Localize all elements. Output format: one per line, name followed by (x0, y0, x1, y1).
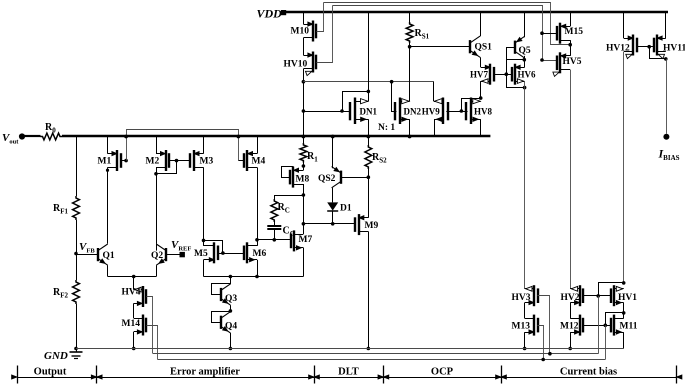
wire QS2 collector to D1 (332, 188, 334, 203)
node rail-R1 (302, 135, 306, 139)
wire RF1 to VFB node (76, 220, 78, 254)
HV9 label (422, 106, 441, 116)
transistor M7 (291, 230, 303, 251)
VDD terminal (281, 10, 286, 15)
transistor M10 (303, 21, 316, 42)
svg-text:HV8: HV8 (474, 106, 493, 116)
wire Q3 diode loop (212, 284, 231, 295)
wire R1 to M8 (302, 163, 306, 171)
wire M5-M6 gates (218, 251, 244, 255)
transistor M4 (244, 150, 257, 171)
Q2 label (151, 251, 163, 261)
VREF label (171, 239, 191, 253)
transistor M13 (525, 315, 538, 336)
transistor M14 (134, 315, 146, 336)
Q3 label (225, 294, 237, 304)
section label DLT (338, 367, 359, 378)
wire rail to R1 (303, 137, 305, 144)
wire HV10 gate route (317, 6, 333, 63)
wire HV1 gate route down (598, 296, 600, 354)
wire rail to RS2 (368, 137, 370, 146)
transistor DN1 (350, 98, 368, 125)
wire Vout to R0 (25, 135, 41, 137)
ground (70, 352, 83, 359)
wire HV9 source (434, 119, 436, 136)
Vout label (2, 132, 19, 146)
wire rail to RF1 (76, 137, 78, 197)
wire RS1 bottom (408, 43, 412, 49)
wire CC to gate node (274, 229, 276, 240)
wire DN2 source (408, 119, 412, 138)
wire M13 source (523, 332, 527, 350)
transistor Q1 (98, 244, 108, 265)
svg-text:HV5: HV5 (563, 57, 582, 67)
M14 label (122, 319, 141, 329)
node M7 drain top (302, 222, 306, 226)
wire M9 source (367, 232, 371, 351)
Q1 label (103, 251, 115, 261)
svg-text:Error amplifier: Error amplifier (170, 367, 240, 378)
wire bus A (303, 81, 434, 83)
wire M1 drain to Q1 (106, 167, 109, 243)
wire M9 drain (368, 177, 370, 218)
wire HV1-M11 (623, 303, 625, 318)
M4 label (252, 157, 266, 167)
wire M5 source (203, 260, 205, 277)
wire Q2 base to VREF (166, 254, 180, 256)
wire RC to CC (274, 222, 276, 226)
transistor HV9 (434, 98, 448, 125)
node DN1 drain (367, 90, 371, 94)
Q5 label (519, 46, 531, 56)
M9 label (365, 221, 379, 231)
wire HV2-HV1 gates (583, 294, 611, 298)
svg-text:M6: M6 (253, 249, 267, 259)
wire RF2 to ground (76, 304, 78, 353)
wire HV8 source (480, 119, 482, 136)
wire VDD to RS1 (409, 13, 411, 23)
wire M5 diode tie (204, 241, 223, 254)
wire M12 source (568, 332, 572, 350)
wire M11 diode tie (606, 313, 624, 326)
node HV1 drain tie (622, 281, 626, 285)
transistor M5 (204, 242, 219, 263)
svg-text:HV1: HV1 (618, 293, 637, 303)
wire HV6 column down (524, 81, 526, 289)
wire M10-HV10 (303, 38, 305, 55)
wire M6 source (257, 260, 259, 277)
wire M3 source column (203, 137, 205, 154)
VREF terminal (180, 252, 185, 257)
svg-text:DN1: DN1 (360, 106, 378, 116)
node HV8 drain (479, 96, 483, 100)
svg-text:M1: M1 (98, 157, 112, 167)
svg-text:M5: M5 (194, 249, 208, 259)
wire M1 gate to bus node (121, 159, 128, 163)
node GND junction (74, 347, 78, 351)
wire M11 source (623, 332, 625, 348)
RC label (278, 202, 290, 215)
node HV11 source tie (664, 57, 668, 61)
wire M2 drain to Q2 (156, 167, 158, 243)
svg-text:HV10: HV10 (284, 60, 308, 70)
transistor DN2 (395, 98, 410, 125)
wire VFB to Q1 base (76, 254, 98, 256)
transistor M2 (156, 150, 169, 171)
transistor Q4 (221, 312, 231, 333)
wire M13 gate route (538, 326, 544, 360)
M5 label (194, 249, 208, 259)
resistor RF1 (73, 196, 80, 220)
wire HV12 source (623, 13, 625, 39)
svg-text:HV12: HV12 (606, 44, 630, 54)
node bus-rail left (124, 135, 128, 139)
DN1 label (360, 106, 378, 116)
transistor QS1 (470, 36, 480, 57)
wire M10 source (303, 13, 305, 25)
resistor RC (271, 199, 278, 222)
RS1 label (415, 28, 430, 41)
svg-text:Current bias: Current bias (560, 367, 617, 378)
transistor M15 (557, 23, 570, 44)
node VFB (74, 252, 78, 256)
HV12 label (606, 44, 630, 54)
R0 label (45, 122, 56, 135)
wire Q1 emitter (107, 265, 109, 276)
transistor M12 (570, 315, 583, 336)
wire bias route 1 (153, 352, 598, 356)
HV3 label (512, 293, 531, 303)
M12 label (560, 322, 579, 332)
wire M2 source column (156, 137, 158, 154)
N:1 label (378, 123, 395, 133)
wire Q5 collector tie (506, 56, 526, 62)
svg-text:VDD: VDD (257, 7, 283, 21)
node D1 cathode (331, 222, 335, 226)
wire M11 gate route (605, 325, 607, 359)
wire HV9-HV8 gates (446, 109, 467, 113)
svg-text:DLT: DLT (338, 367, 359, 378)
Q4 label (225, 322, 237, 332)
wire M8 drain (303, 184, 305, 224)
resistor R1 (300, 143, 307, 163)
wire tail to HV4 (133, 277, 135, 290)
wire M7 source (303, 248, 305, 277)
svg-text:M8: M8 (296, 175, 310, 185)
svg-text:HV7: HV7 (470, 70, 489, 80)
wire Q2 collector (156, 244, 158, 251)
wire M15 source (570, 13, 572, 27)
QS2 label (318, 174, 336, 184)
wire DN1 source (368, 119, 370, 136)
node M11 drain tie (622, 311, 626, 315)
svg-text:Q3: Q3 (225, 294, 237, 304)
svg-text:M2: M2 (146, 157, 160, 167)
D1 label (340, 204, 352, 214)
wire Q3 collector (230, 277, 232, 285)
HV6 label (518, 70, 537, 80)
section label Current bias (560, 367, 617, 378)
node QS2 emitter rail (331, 135, 335, 139)
svg-text:M13: M13 (512, 322, 531, 332)
wire Q5 base route (507, 48, 525, 88)
M13 label (512, 322, 531, 332)
wire HV8 diode tie (462, 99, 481, 112)
svg-text:Q2: Q2 (151, 251, 163, 261)
transistor HV1 (611, 285, 624, 306)
wire HV11 diode tie (650, 47, 666, 59)
node DN2 gate bus (390, 80, 394, 84)
wire Q5 collector to HV6 (524, 60, 526, 68)
svg-text:M7: M7 (299, 235, 313, 245)
resistor RS2 (365, 145, 372, 169)
RF2 label (53, 287, 69, 300)
M11 label (620, 322, 638, 332)
wire Q4 emitter (229, 333, 233, 350)
wire M8 gate loop (282, 167, 294, 178)
node bus-rail right (237, 135, 241, 139)
svg-text:QS1: QS1 (475, 43, 493, 53)
svg-text:HV2: HV2 (561, 293, 580, 303)
svg-text:Output: Output (34, 367, 67, 378)
wire HV3 gate route (538, 296, 550, 354)
transistor HV8 (466, 98, 481, 125)
M8 label (296, 175, 310, 185)
wire Q3 emitter (229, 305, 233, 313)
node CC bottom (273, 238, 277, 242)
node rail-RS2 (366, 135, 370, 139)
svg-text:M11: M11 (620, 322, 638, 332)
section label Output (34, 367, 67, 378)
svg-text:D1: D1 (340, 204, 352, 214)
section label Error amplifier (170, 367, 240, 378)
HV1 label (618, 293, 637, 303)
wire bus B (303, 111, 350, 113)
wire DLT node (303, 223, 355, 225)
wire M4 drain to M6 (257, 167, 259, 246)
transistor HV11 (654, 35, 666, 59)
transistor M11 (611, 315, 624, 336)
VFB label (79, 241, 95, 255)
M10 label (291, 27, 310, 37)
svg-text:HV6: HV6 (518, 70, 537, 80)
transistor M1 (108, 150, 122, 171)
wire M15 gate (540, 31, 557, 35)
wire M10 gate route (317, 3, 324, 32)
wire HV7 drain (480, 81, 482, 98)
wire HV4-M14 (133, 303, 135, 318)
HV4 label (122, 288, 141, 298)
wire D1 to node (332, 211, 334, 224)
section label OCP (431, 367, 454, 378)
transistor HV6 (512, 64, 525, 85)
wire bias route 2 (158, 358, 606, 362)
wire RS2 to node (368, 169, 370, 177)
wire QS2 base (341, 175, 370, 179)
svg-text:M15: M15 (565, 27, 584, 37)
transistor Q5 (515, 37, 525, 58)
M2 label (146, 157, 160, 167)
capacitor CC (267, 226, 281, 229)
node M5 drain (202, 239, 206, 243)
node M8 drain (302, 193, 306, 197)
svg-text:HV11: HV11 (663, 44, 685, 54)
VDD label (257, 7, 283, 21)
svg-text:GND: GND (44, 350, 68, 362)
wire HV1 diode tie (599, 283, 624, 296)
wire Q2 emitter (156, 265, 158, 276)
node M2 drain (154, 172, 158, 176)
wire tail M5-M7 (204, 275, 304, 279)
DN2 label (404, 106, 422, 116)
wire HV11 top (665, 13, 667, 39)
wire Q4 diode loop (212, 312, 231, 323)
wire DN1 diode loop (343, 92, 369, 112)
wire HV10 drain column (303, 69, 305, 137)
M7 label (299, 235, 313, 245)
transistor HV4 (134, 286, 146, 307)
resistor RF2 (73, 280, 80, 304)
IBIAS label (658, 147, 680, 163)
wire GND net (76, 348, 624, 350)
svg-text:HV4: HV4 (122, 288, 141, 298)
wire M3 drain to M5 (203, 167, 205, 246)
transistor HV2 (570, 285, 583, 306)
wire HV7 gate (494, 72, 508, 76)
transistor HV3 (525, 285, 538, 306)
wire RC top (275, 196, 304, 200)
svg-text:M12: M12 (560, 322, 579, 332)
HV10 label (284, 60, 308, 70)
wire tail Q1-Q2 (108, 275, 157, 279)
transistor Q3 (221, 284, 231, 305)
wire HV12-HV11 gates (637, 45, 654, 49)
wire M2 diode tie (157, 161, 177, 174)
section dimension line (11, 366, 682, 384)
wire HV6 gate (506, 74, 511, 76)
svg-text:QS2: QS2 (318, 174, 336, 184)
transistor QS2 (332, 167, 342, 188)
node HV10 drain A (302, 80, 306, 84)
HV5 label (563, 57, 582, 67)
svg-text:M4: M4 (252, 157, 266, 167)
svg-text:HV3: HV3 (512, 293, 531, 303)
wire M1 source column (107, 137, 109, 154)
transistor HV7 (481, 64, 494, 85)
HV7 label (470, 70, 489, 80)
CC label (283, 226, 295, 239)
svg-text:OCP: OCP (431, 367, 454, 378)
wire DN1 drain to VDD (368, 13, 370, 102)
wire QS1 collector (480, 13, 482, 37)
svg-text:Q1: Q1 (103, 251, 115, 261)
M15 label (565, 27, 584, 37)
GND label (44, 350, 68, 362)
wire M2-M3 gates (169, 159, 190, 163)
wire M15 drain (568, 40, 572, 56)
wire HV2-M12 (570, 303, 572, 318)
RS2 label (372, 152, 387, 165)
wire gate bus (127, 130, 239, 161)
svg-text:M9: M9 (365, 221, 379, 231)
Vout rail (62, 135, 490, 138)
transistor M6 (244, 242, 257, 263)
node DN1 gate (340, 109, 344, 113)
M1 label (98, 157, 112, 167)
node HV5 gate (540, 58, 544, 62)
transistor HV5 (553, 52, 570, 76)
node HV6 drain tie (523, 86, 527, 90)
HV11 label (663, 44, 685, 54)
svg-text:M14: M14 (122, 319, 141, 329)
QS1 label (475, 43, 493, 53)
wire M4 source column (257, 137, 259, 154)
node HV10 drain B (302, 109, 306, 113)
Vout terminal (19, 133, 25, 139)
wire HV11 to IBIAS (666, 59, 668, 134)
wire HV5 column down (570, 70, 572, 289)
transistor M8 (290, 167, 303, 188)
wire top bus 1 (324, 3, 571, 45)
wire DN2 gate route (392, 82, 397, 112)
wire top bus 2 (333, 6, 558, 61)
wire DN2 drain column (409, 47, 411, 101)
svg-text:Q4: Q4 (225, 322, 237, 332)
wire Q5 emitter to VDD (524, 13, 526, 38)
svg-text:M10: M10 (291, 27, 310, 37)
svg-text:HV9: HV9 (422, 106, 441, 116)
node M6 drain (255, 238, 259, 242)
VDD power rail (286, 11, 668, 14)
transistor M9 (355, 214, 368, 235)
wire M7 drain (303, 224, 305, 234)
wire VFB to RF2 (76, 254, 78, 281)
wire M12-M11 gates (583, 324, 611, 328)
wire QS2 emitter (332, 137, 334, 169)
wire RS1 to QS1 base (410, 46, 471, 48)
svg-text:Q5: Q5 (519, 46, 531, 56)
R1 label (307, 151, 318, 164)
svg-text:DN2: DN2 (404, 106, 422, 116)
resistor RS1 (406, 22, 413, 43)
RF1 label (53, 203, 69, 216)
wire HV4 gate route (147, 297, 153, 354)
wire M6 drain to M7 gate (257, 239, 291, 241)
wire QS1 emitter (480, 57, 482, 67)
HV2 label (561, 293, 580, 303)
transistor HV12 (624, 35, 637, 59)
transistor HV10 (303, 52, 316, 76)
wire HV3-M13 (524, 303, 526, 318)
wire M14 source (132, 332, 136, 350)
svg-text:N: 1: N: 1 (378, 123, 395, 133)
M6 label (253, 249, 267, 259)
wire HV9 drain route (433, 82, 435, 102)
transistor Q2 (156, 244, 166, 265)
wire M4 gate (238, 160, 244, 162)
svg-text:M3: M3 (200, 157, 214, 167)
wire HV12 column down (623, 52, 625, 283)
resistor R0 (41, 133, 63, 140)
transistor M3 (190, 150, 204, 171)
M3 label (200, 157, 214, 167)
wire M14 gate route (147, 326, 158, 360)
IBIAS terminal (663, 134, 669, 140)
HV8 label (474, 106, 493, 116)
diode D1 (327, 202, 338, 211)
